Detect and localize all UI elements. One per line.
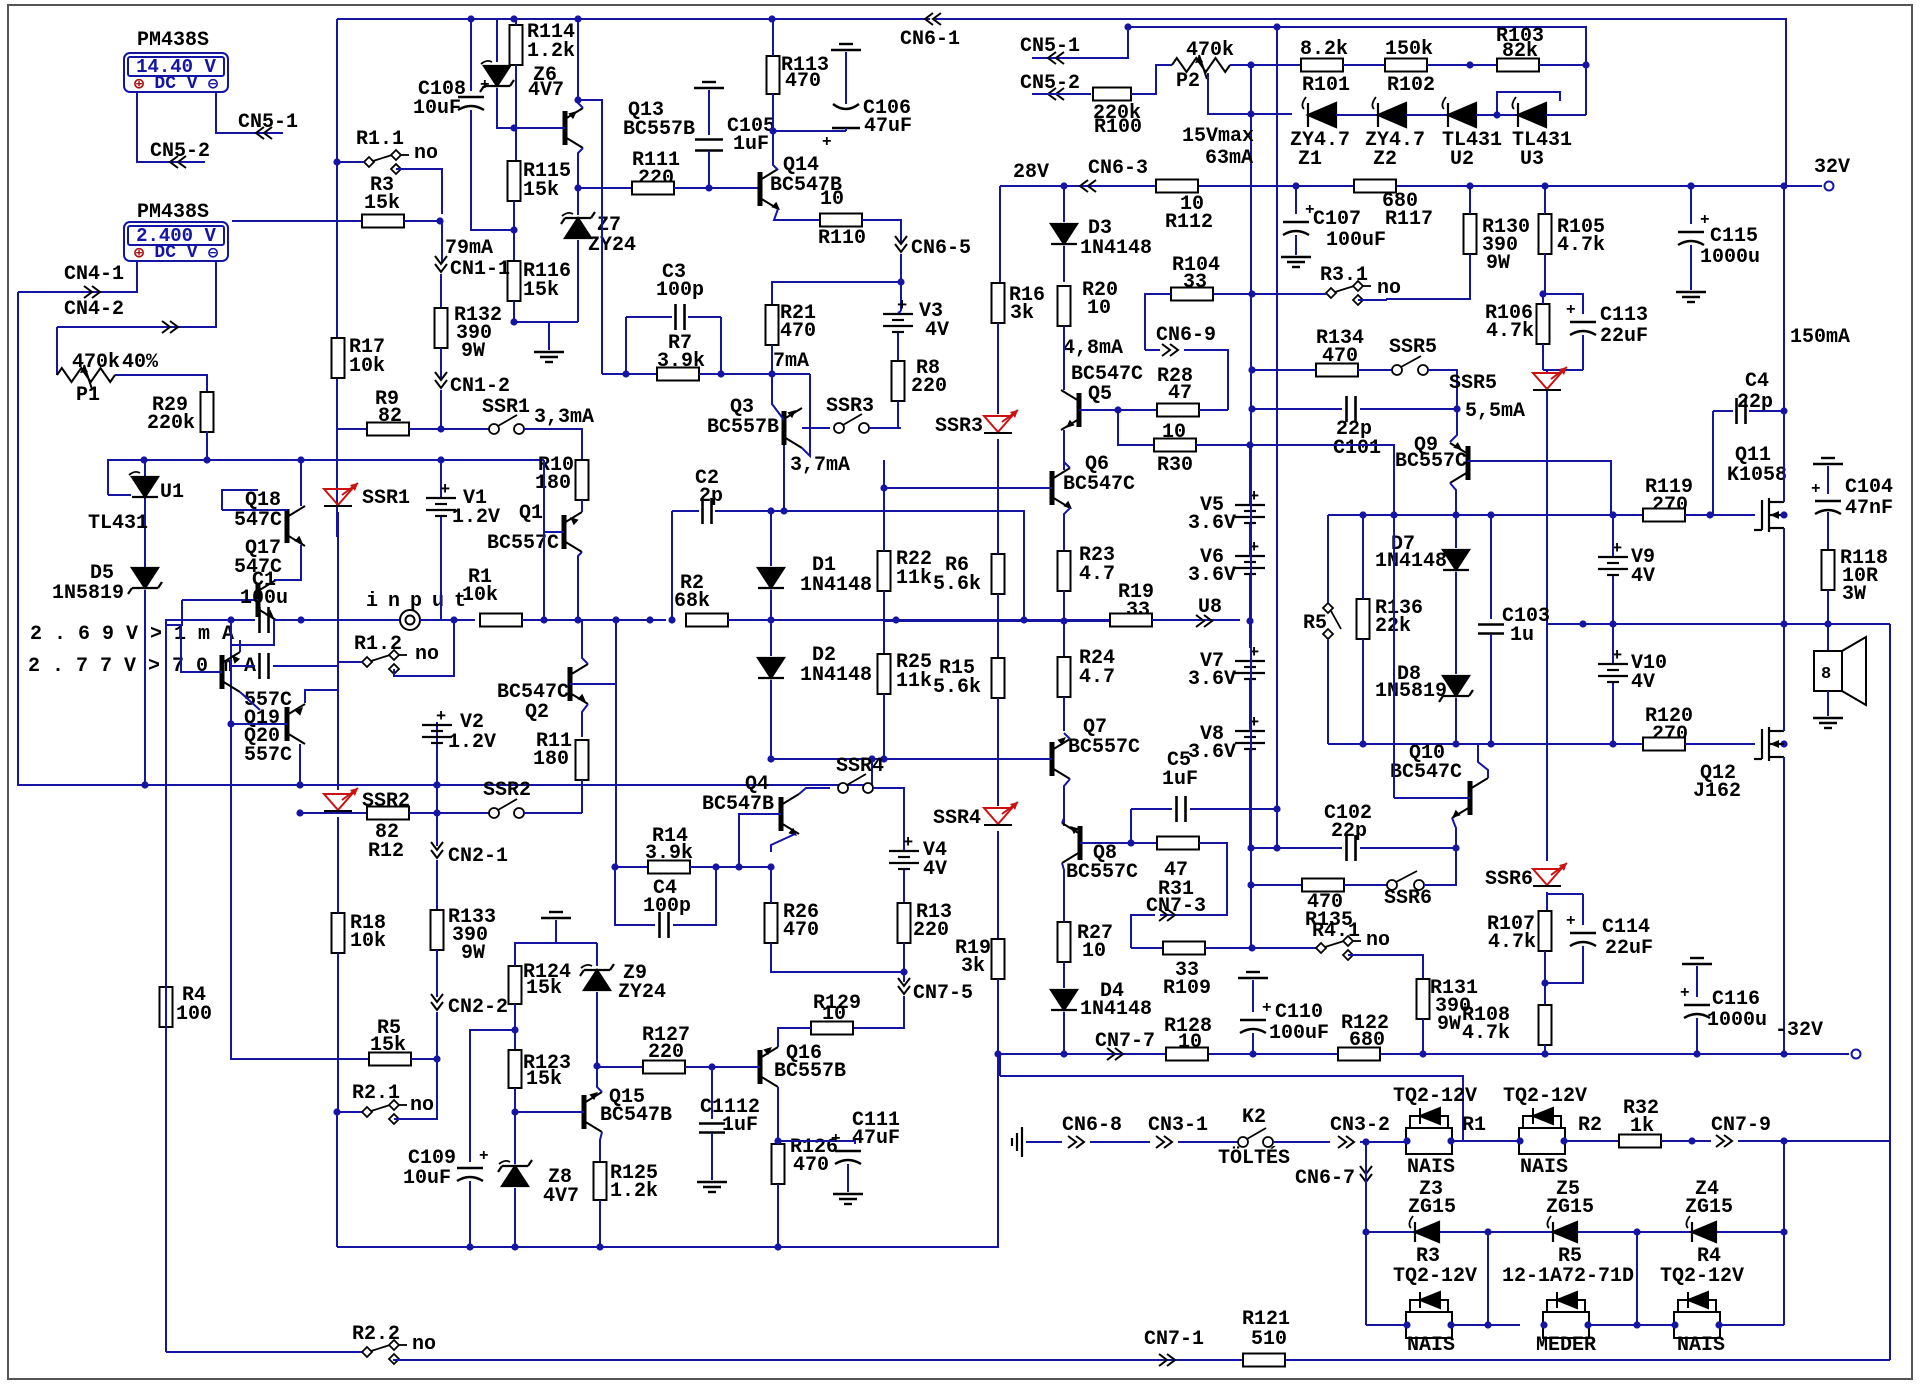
resistor R114 1.2k <box>510 25 523 65</box>
svg-text:⊕: ⊕ <box>134 76 145 95</box>
junction <box>297 456 304 463</box>
junction <box>994 1050 1001 1057</box>
ground above C110 <box>1238 972 1268 978</box>
svg-text:Z1: Z1 <box>1298 148 1322 171</box>
junction <box>1609 620 1616 627</box>
wire V9 bottom <box>1612 576 1614 624</box>
svg-text:+: + <box>436 708 446 727</box>
wire Z1-Z2 <box>1336 114 1378 116</box>
svg-text:C110: C110 <box>1275 1001 1323 1024</box>
wire meter1 plus to CN5-1 <box>216 92 283 133</box>
wire R5 switch top <box>1327 515 1329 603</box>
svg-text:47uF: 47uF <box>852 1127 900 1150</box>
connector CN5-2 arrow right <box>1048 88 1064 100</box>
svg-text:4.7: 4.7 <box>1079 666 1115 689</box>
wire C2 left <box>672 510 699 512</box>
wire C101 right <box>1360 408 1457 410</box>
svg-text:C113: C113 <box>1600 304 1648 327</box>
wire R106 top <box>1542 294 1544 304</box>
wire D5 to bottom row <box>144 590 146 785</box>
junction <box>1248 290 1255 297</box>
connector CN2-1 arrow <box>431 842 443 858</box>
wire CN7-5 to R129 <box>853 996 904 1028</box>
resistor R29 <box>201 392 214 432</box>
wire none <box>997 282 999 284</box>
wire Z9 top <box>596 943 598 966</box>
resistor R111 220 <box>632 182 674 195</box>
potentiometer P1 <box>57 368 115 382</box>
svg-text:3,7mA: 3,7mA <box>790 454 850 477</box>
svg-text:1000u: 1000u <box>1700 246 1760 269</box>
wire Q9 emitter up <box>1450 409 1457 442</box>
diode D5 1N5819 <box>128 568 162 594</box>
wire U3 gate loop <box>1497 92 1560 115</box>
wire C4 right <box>1749 410 1784 412</box>
svg-text:U3: U3 <box>1520 148 1544 171</box>
capacitor C107 100uF <box>1283 222 1309 235</box>
svg-text:9W: 9W <box>461 942 485 965</box>
junction <box>708 1063 715 1070</box>
svg-text:C104: C104 <box>1845 476 1893 499</box>
svg-text:⊕: ⊕ <box>134 245 145 264</box>
wire none <box>1249 444 1251 446</box>
junction <box>1688 1137 1695 1144</box>
svg-text:180: 180 <box>535 472 571 495</box>
switch R3.1 <box>1326 281 1371 305</box>
wire Q18 collector <box>300 460 302 506</box>
wire R1.2 out <box>394 620 454 676</box>
wire Q3 base loop <box>802 374 810 456</box>
wire C3 right down <box>720 317 722 374</box>
junction <box>511 1026 518 1033</box>
wire relay R3 to R5 <box>1451 1324 1520 1326</box>
junction <box>510 15 517 22</box>
wire C108 top <box>470 19 472 91</box>
svg-text:C107: C107 <box>1313 208 1361 231</box>
junction <box>466 1243 473 1250</box>
meter PM438S #1 <box>124 53 228 92</box>
resistor R100 220k <box>1093 88 1131 101</box>
svg-text:10k: 10k <box>349 355 385 378</box>
svg-text:SSR1: SSR1 <box>362 487 410 510</box>
svg-text:SSR5: SSR5 <box>1449 372 1497 395</box>
wire C116 bottom <box>1696 1018 1698 1054</box>
svg-text:4.7: 4.7 <box>1079 563 1115 586</box>
wire Q17 base down <box>165 600 182 625</box>
wire V10 top <box>1612 624 1614 663</box>
capacitor C1112 1uF <box>699 1124 725 1133</box>
junction <box>774 1243 781 1250</box>
svg-text:470: 470 <box>785 70 821 93</box>
wire bottom bus <box>337 1054 998 1247</box>
wire R135 left <box>1251 884 1303 886</box>
zener Z9 ZY24 <box>580 964 614 990</box>
transistor Q15 <box>584 1092 602 1132</box>
junction <box>1060 182 1067 189</box>
svg-text:8: 8 <box>1821 665 1831 684</box>
wire U1 cathode <box>144 460 146 568</box>
wire top bus right <box>935 19 1786 186</box>
battery V9 4V <box>1598 557 1628 575</box>
svg-text:CN4-2: CN4-2 <box>64 298 124 321</box>
ground above C105 <box>694 82 724 88</box>
wire R119 right <box>1685 514 1710 516</box>
wire R19 bottom <box>997 979 999 1054</box>
capacitor C113 22uF <box>1570 322 1596 335</box>
wire Q2 collector up <box>582 620 588 664</box>
svg-text:1000u: 1000u <box>1707 1009 1767 1032</box>
svg-text:+: + <box>1305 201 1315 219</box>
transistor Q6 <box>1052 468 1070 508</box>
svg-text:10k: 10k <box>462 584 498 607</box>
junction <box>1540 1321 1547 1328</box>
transistor Q8 <box>1062 823 1080 863</box>
junction <box>333 158 340 165</box>
svg-text:+: + <box>822 133 832 151</box>
terminal -32V <box>1852 1050 1861 1059</box>
svg-text:CN7-9: CN7-9 <box>1711 1114 1771 1137</box>
resistor R11 180 <box>576 740 589 780</box>
junction <box>705 184 712 191</box>
resistor R13 220 <box>898 903 911 943</box>
svg-text:1N4148: 1N4148 <box>1375 550 1447 573</box>
svg-text:SSR3: SSR3 <box>826 395 874 418</box>
svg-text:R117: R117 <box>1385 208 1433 231</box>
wire Z6 bottom to base row <box>497 88 514 128</box>
wire rail y=515 <box>1328 514 1650 516</box>
wire R125 bottom <box>599 1200 601 1247</box>
resistor R119 270 <box>1643 509 1685 522</box>
wire R136 top <box>1362 515 1364 599</box>
svg-text:BC557B: BC557B <box>623 118 695 141</box>
svg-text:CN6-5: CN6-5 <box>911 237 971 260</box>
junction <box>1060 617 1067 624</box>
ground above C104 <box>1813 458 1843 464</box>
resistor R113 470 <box>767 56 780 94</box>
connector CN6-1 arrow <box>925 13 941 25</box>
wire Q11 source down <box>1783 528 1785 624</box>
resistor R4 100 <box>160 987 173 1027</box>
svg-text:K2: K2 <box>1242 1106 1266 1129</box>
junction <box>1780 1050 1787 1057</box>
wire R31 right <box>1199 843 1227 877</box>
wire R130 bottom to R3.1 <box>1386 254 1470 299</box>
wire C5 left <box>1131 808 1172 810</box>
svg-text:79mA: 79mA <box>445 237 493 260</box>
svg-text:15k: 15k <box>364 192 400 215</box>
junction <box>1247 61 1254 68</box>
svg-text:TL431: TL431 <box>88 512 148 535</box>
wire right col down <box>1783 1232 1785 1325</box>
wire CN2-1 to R133 <box>436 860 438 911</box>
wire 32V right <box>1691 185 1822 187</box>
switch SSR6 <box>1387 871 1424 890</box>
wire none <box>771 19 773 21</box>
resistor R126 470 <box>772 1144 785 1184</box>
wire Q1 collector down <box>578 552 582 620</box>
svg-text:SSR2: SSR2 <box>483 779 531 802</box>
wire R136 bottom <box>1362 639 1364 744</box>
resistor R23 4.7 <box>1058 551 1071 591</box>
svg-text:1uF: 1uF <box>733 133 769 156</box>
junction <box>510 124 517 131</box>
wire R124-R123 <box>514 1004 516 1050</box>
svg-text:47: 47 <box>1168 382 1192 405</box>
ground above C116 <box>1682 958 1712 964</box>
wire R3.1 out <box>1358 299 1386 300</box>
battery V5 <box>1235 505 1265 523</box>
junction <box>437 425 444 432</box>
svg-text:3,3mA: 3,3mA <box>534 406 594 429</box>
wire bottom row right <box>394 1359 1890 1360</box>
svg-text:11k: 11k <box>896 567 932 590</box>
junction <box>1484 1228 1491 1235</box>
wire C103 top <box>1490 515 1492 619</box>
capacitor C105 1uF <box>695 140 723 151</box>
wire R109 left <box>1131 947 1163 949</box>
wire V7-V8 <box>1249 680 1251 730</box>
wire Q8 collector down <box>1062 863 1064 905</box>
connector CN7-5 arrow <box>898 978 910 994</box>
wire CN6-8 to CN3-1 <box>1090 1141 1150 1143</box>
wire K2 row start <box>1026 1141 1062 1143</box>
connector CN4-2 arrow <box>162 321 178 333</box>
wire R129 left <box>778 1028 811 1047</box>
connector CN3-1 arrow <box>1156 1136 1172 1148</box>
svg-text:input: input <box>366 590 476 613</box>
wire D3 bottom <box>1063 246 1065 282</box>
wire none <box>1547 893 1583 895</box>
wire R106/C113 join <box>1543 369 1583 371</box>
wire V1 bottom to input line <box>440 517 442 620</box>
wire Q16 base <box>712 1066 760 1068</box>
svg-text:2.69V>1mA: 2.69V>1mA <box>30 623 246 646</box>
wire R1 to R2 <box>522 619 666 621</box>
wire D1 bottom <box>770 590 772 620</box>
wire none <box>1393 515 1395 798</box>
svg-text:220k: 220k <box>147 412 195 435</box>
junction <box>1693 1050 1700 1057</box>
connector CN7-3 arrow <box>1159 909 1175 921</box>
wire R126 bottom <box>777 1184 779 1247</box>
junction <box>1824 620 1831 627</box>
wire R16 bottom to SSR3 LED <box>997 323 999 414</box>
resistor R18 10k <box>332 913 345 953</box>
wire Q6 collector up <box>1064 462 1070 468</box>
svg-text:15k: 15k <box>526 977 562 1000</box>
svg-text:10uF: 10uF <box>403 1167 451 1190</box>
zener Z7 ZY24 <box>561 212 595 238</box>
wire Q14 collector up <box>773 131 778 170</box>
wire relay R5 to R4 <box>1588 1324 1675 1326</box>
resistor R26 470 <box>765 903 778 943</box>
resistor R132 390 9W <box>435 308 448 348</box>
LED SSR4 <box>984 802 1018 825</box>
svg-text:+: + <box>903 834 913 853</box>
resistor R116 15k <box>508 261 521 301</box>
capacitor C115 1000u <box>1678 232 1704 245</box>
wire Z7 bottom <box>577 240 579 322</box>
wire none <box>999 1054 1001 1076</box>
wire Z4 col down <box>1636 1232 1638 1325</box>
wire Q15 collector up <box>597 1066 602 1092</box>
switch SSR1 <box>489 415 524 434</box>
wire R7 left <box>602 373 657 375</box>
wire long bus x1277 <box>1276 26 1278 845</box>
wire zener row <box>1366 1231 1784 1233</box>
wire Q19 collector stub <box>239 640 241 652</box>
wire to R2.1 <box>337 1111 362 1113</box>
wire to CN1-1 <box>441 221 443 262</box>
connector CN4-1 arrow <box>84 286 100 298</box>
wire D1 top <box>770 511 772 566</box>
resistor R104 33 <box>1171 288 1213 301</box>
wire C3 left down <box>625 317 627 374</box>
transistor Q1 <box>564 512 582 552</box>
junction <box>900 968 907 975</box>
svg-text:R1: R1 <box>1462 1114 1486 1137</box>
svg-text:R109: R109 <box>1163 977 1211 1000</box>
wire R107 bottom <box>1544 951 1546 1006</box>
wire C103 bottom <box>1490 634 1492 744</box>
svg-text:TQ2-12V: TQ2-12V <box>1393 1085 1477 1108</box>
resistor R6 5.6k <box>992 554 1005 594</box>
svg-text:BC557B: BC557B <box>774 1060 846 1083</box>
wire R119 to Q11 gate <box>1710 514 1755 516</box>
svg-text:+: + <box>479 1147 489 1165</box>
wire long bus x1251 <box>1250 65 1252 948</box>
junction <box>227 616 234 623</box>
svg-text:ZG15: ZG15 <box>1408 1196 1456 1219</box>
wire R106 bottom <box>1542 344 1544 370</box>
wire Q13 collector down <box>578 148 583 215</box>
wire P1 to R29 <box>115 375 207 394</box>
junction <box>1362 1138 1369 1145</box>
resistor R121 510 <box>1243 1354 1285 1367</box>
zener Z4 ZG15 <box>1692 1222 1716 1242</box>
resistor R24 4.7 <box>1058 657 1071 697</box>
svg-text:10uF: 10uF <box>413 97 461 120</box>
svg-text:K1058: K1058 <box>1727 464 1787 487</box>
wire gnd stub <box>555 920 557 943</box>
svg-text:1N5819: 1N5819 <box>52 582 124 605</box>
switch K2 <box>1238 1128 1273 1147</box>
wire V8 down <box>1249 750 1251 845</box>
wire R28 right <box>1199 409 1228 411</box>
junction <box>510 318 517 325</box>
diode D3 1N4148 <box>1051 224 1077 244</box>
wire Q10 base <box>1394 797 1470 799</box>
capacitor C106 47uF <box>832 104 860 128</box>
wire R22 top <box>883 460 885 551</box>
capacitor C101 22p <box>1347 396 1356 422</box>
diode D1 1N4148 <box>758 568 784 588</box>
svg-text:ZG15: ZG15 <box>1546 1196 1594 1219</box>
svg-text:510: 510 <box>1251 1328 1287 1351</box>
wire V4 to R13 <box>903 870 905 903</box>
junction <box>1248 944 1255 951</box>
wire R135 right <box>1344 884 1387 886</box>
svg-text:Z2: Z2 <box>1373 148 1397 171</box>
wire R133 to CN2-2 <box>436 950 438 997</box>
wire C105 bottom <box>708 151 710 188</box>
wire Q12 drain up <box>1783 624 1785 731</box>
transistor Q17 <box>258 580 276 620</box>
junction <box>767 507 774 514</box>
svg-text:NAIS: NAIS <box>1407 1334 1455 1357</box>
wire V10 bottom <box>1612 683 1614 744</box>
wire C4 row left <box>615 867 655 925</box>
resistor R16 3k <box>992 283 1005 323</box>
svg-text:+: + <box>1811 480 1821 498</box>
wire Q8 base <box>1080 842 1131 844</box>
resistor R131 390 9W <box>1417 979 1430 1019</box>
svg-text:R100: R100 <box>1094 116 1142 139</box>
wire Q12 source down <box>1783 757 1785 1054</box>
resistor R12 82 <box>367 807 409 820</box>
battery V8 <box>1235 731 1265 749</box>
svg-text:CN2-1: CN2-1 <box>448 845 508 868</box>
wire SSR4 right <box>873 788 904 851</box>
wire D4 bottom <box>1063 1012 1065 1054</box>
wire R1.1 out to R3 <box>396 169 442 214</box>
junction <box>1362 1228 1369 1235</box>
resistor R3 15k <box>362 215 404 228</box>
transistor Q7 <box>1052 739 1070 779</box>
junction <box>1633 1321 1640 1328</box>
wire R115 to R116 <box>513 201 515 261</box>
junction <box>1493 111 1500 118</box>
wire R109 right <box>1205 947 1316 949</box>
svg-text:CN7-5: CN7-5 <box>913 982 973 1005</box>
shunt regulator U1 TL431 <box>132 477 158 497</box>
resistor R102 150k <box>1385 59 1427 72</box>
svg-text:+: + <box>831 1130 841 1148</box>
wire Q16 emitter to C111 <box>778 1141 855 1144</box>
wire Z2-U2 <box>1406 114 1448 116</box>
junction <box>868 755 875 762</box>
wire to CN2-1 <box>436 813 438 846</box>
connector CN7-1 arrow <box>1159 1354 1175 1366</box>
wire C110 bottom <box>1252 1033 1254 1054</box>
wire U3 right <box>1546 114 1586 116</box>
transistor Q2 <box>570 664 588 704</box>
resistor R130 390 9W <box>1464 214 1477 254</box>
wire CN1-2 to R9 row <box>440 390 442 429</box>
wire R124 top <box>514 943 516 966</box>
capacitor C114 22uF <box>1570 933 1596 946</box>
resistor R129 10 <box>811 1022 853 1035</box>
resistor R122 680 <box>1338 1048 1380 1061</box>
wire R27 bottom <box>1063 962 1065 988</box>
svg-text:+: + <box>1680 984 1690 1002</box>
svg-text:547C: 547C <box>234 509 282 532</box>
svg-text:C116: C116 <box>1712 988 1760 1011</box>
junction <box>1780 620 1787 627</box>
wire R134 right <box>1358 369 1392 371</box>
svg-text:100uF: 100uF <box>1269 1022 1329 1045</box>
svg-text:BC557C: BC557C <box>1068 736 1140 759</box>
svg-text:470: 470 <box>780 320 816 343</box>
svg-text:no: no <box>410 1094 434 1117</box>
svg-text:150mA: 150mA <box>1790 326 1850 349</box>
svg-text:no: no <box>1377 277 1401 300</box>
wire R2 right long row <box>728 619 1110 621</box>
junction <box>1273 805 1280 812</box>
capacitor C4 100p <box>660 912 669 938</box>
svg-text:TQ2-12V: TQ2-12V <box>1660 1265 1744 1288</box>
svg-text:SSR2: SSR2 <box>362 790 410 813</box>
